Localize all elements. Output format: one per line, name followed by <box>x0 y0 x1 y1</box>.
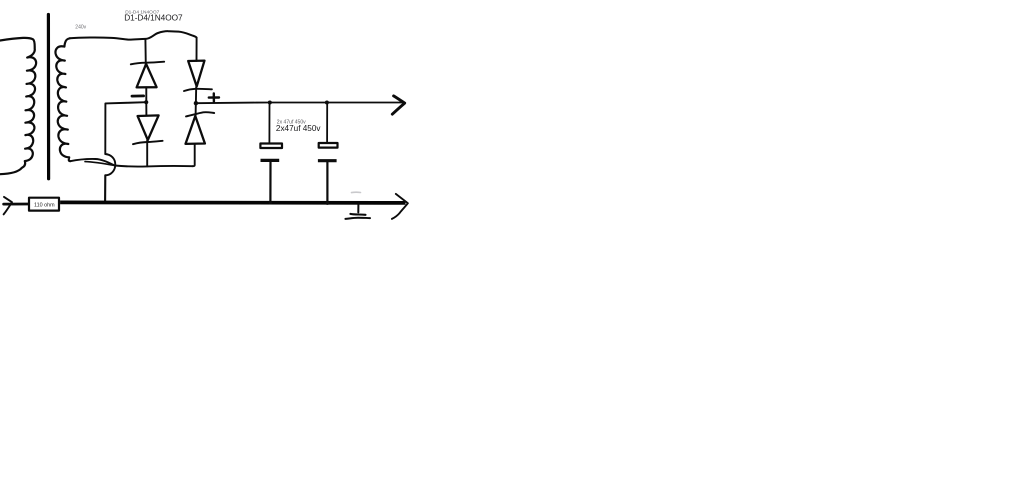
ground rail <box>60 201 405 205</box>
node cap1 top junction <box>268 101 272 105</box>
diode D1 upper-left cathode bar <box>131 62 164 65</box>
arrow output top <box>392 96 404 114</box>
wire D3 to bridge bottom <box>146 140 148 166</box>
capacitor C2 bottom plate <box>318 159 337 162</box>
diode D2 upper-right triangle <box>188 61 204 87</box>
diode D3 lower-left lead from minus node <box>145 104 147 116</box>
resistor R1 box <box>29 198 59 211</box>
wire D4 to bridge bottom <box>193 144 195 166</box>
wire D2 to plus node <box>195 87 197 102</box>
transformer T1 primary winding <box>0 38 36 174</box>
diode D3 lower-left cathode bar <box>133 141 163 144</box>
svg-text:2x47uf 450v: 2x47uf 450v <box>276 124 322 133</box>
wire hop to ground rail <box>104 175 106 201</box>
wire input left <box>4 203 28 206</box>
node cap2 bottom junction <box>326 201 330 205</box>
capacitor C2 top lead <box>326 104 328 142</box>
node minus junction <box>144 100 148 104</box>
label minus <box>132 95 144 98</box>
capacitor C1 bottom lead <box>269 162 271 201</box>
svg-text:110 ohm: 110 ohm <box>34 202 55 208</box>
wire secondary top to bridge top <box>70 31 197 39</box>
arrow input fletch <box>4 197 12 215</box>
capacitor C2 bottom lead <box>326 162 328 201</box>
svg-text:D1-D4/1N4OO7: D1-D4/1N4OO7 <box>124 12 183 22</box>
transformer T1 secondary winding <box>55 38 70 161</box>
label plus <box>209 93 219 101</box>
capacitor C2 top plate <box>319 143 338 148</box>
transformer core <box>47 15 50 179</box>
wire secondary bottom wedge stroke <box>85 162 114 166</box>
top output rail plus to arrow <box>196 102 404 105</box>
wire minus node to hop <box>105 102 146 154</box>
wire bridge left branch top <box>144 39 146 65</box>
capacitor C1 top lead <box>268 104 270 142</box>
capacitor C1 bottom plate <box>261 159 280 162</box>
capacitor C1 top plate <box>260 144 282 149</box>
node plus junction <box>194 101 198 105</box>
wire secondary bottom to bridge bottom <box>70 159 193 167</box>
diode D4 lower-right cathode bar <box>186 112 214 116</box>
node cap2 top junction <box>325 101 329 105</box>
wire bridge right branch top <box>196 38 198 61</box>
diode D4 lower-right lead from plus node <box>195 105 197 116</box>
diode D2 upper-right cathode bar <box>184 89 212 91</box>
diode D1 upper-left triangle <box>137 64 157 88</box>
diode D3 lower-left triangle <box>138 115 159 140</box>
svg-text:240v: 240v <box>75 24 86 30</box>
ground symbol bar 1 <box>350 213 365 216</box>
faint mark above rail <box>352 191 361 193</box>
diode D4 lower-right triangle <box>186 116 205 144</box>
ground symbol stub <box>357 205 359 213</box>
node cap1 bottom junction <box>269 201 272 204</box>
arrow output bottom <box>392 194 408 219</box>
ground symbol bar 2 <box>345 218 370 219</box>
wire D1 to minus node <box>145 87 147 101</box>
wire hop over secondary lead <box>105 154 115 175</box>
